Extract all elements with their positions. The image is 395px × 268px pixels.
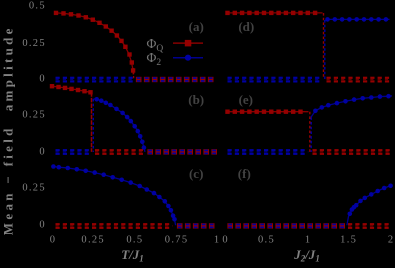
svg-text:Mean − field: Mean − field [0,125,15,235]
svg-text:(f): (f) [238,166,251,181]
svg-text:0.25: 0.25 [22,38,46,49]
svg-text:0: 0 [39,74,46,85]
svg-text:0: 0 [50,235,57,246]
svg-text:2: 2 [388,235,395,246]
svg-text:(e): (e) [239,92,253,107]
svg-text:amplitude: amplitude [0,25,15,111]
svg-text:0: 0 [39,220,46,231]
svg-text:0.25: 0.25 [22,110,46,121]
svg-text:0.25: 0.25 [81,235,105,246]
svg-text:0.75: 0.75 [165,235,189,246]
svg-text:0: 0 [222,235,229,246]
svg-text:(c): (c) [189,166,203,181]
svg-text:0.5: 0.5 [258,235,275,246]
svg-text:(a): (a) [189,19,204,34]
svg-text:1: 1 [214,235,221,246]
svg-text:(d): (d) [238,19,254,34]
svg-text:0: 0 [39,146,46,157]
svg-text:1: 1 [305,235,312,246]
svg-text:0.5: 0.5 [29,1,46,12]
svg-text:1.5: 1.5 [340,235,357,246]
svg-text:0.5: 0.5 [126,235,143,246]
svg-text:(b): (b) [188,92,204,107]
svg-text:0.25: 0.25 [22,182,46,193]
